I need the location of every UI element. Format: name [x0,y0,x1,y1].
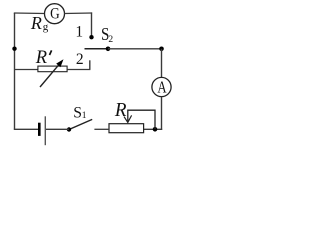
wire down to contact 1 [91,12,93,36]
wire R' row right [67,69,90,71]
resistor R box [109,124,144,133]
battery short plate [38,123,41,136]
galvanometer G (internal resistance Rg) [45,4,65,24]
rheostat R' arrow [40,65,59,87]
svg-text:1: 1 [82,111,87,121]
resistor R' box [38,66,67,72]
node left junction dot [12,47,16,51]
wire S2 to ammeter branch [108,48,162,50]
svg-text:g: g [43,21,49,33]
svg-text:G: G [50,5,60,22]
wire down to ammeter [161,49,163,78]
svg-text:2: 2 [76,51,84,68]
svg-text:2: 2 [108,35,113,45]
node junction dot top right [159,47,164,52]
battery long plate [44,116,46,145]
wire bottom right horizontal [144,128,163,130]
svg-text:R: R [114,100,127,122]
node junction dot bottom right [153,127,158,132]
svg-text:A: A [157,79,167,97]
switch S2 blade [85,48,109,50]
svg-text:1: 1 [75,24,83,41]
node S1 pivot dot [67,127,71,131]
node S2 pivot dot [106,47,111,52]
wire contact 2 stub [89,60,91,69]
node contact 1 dot [89,35,93,39]
wire battery to S1 [46,128,69,130]
wire ammeter down [161,97,163,130]
wire top left horizontal [14,12,45,15]
rheostat R wiper elbow [128,110,155,129]
wire left vertical [14,13,16,129]
wire top right horizontal [64,12,92,15]
svg-text:R: R [30,13,42,33]
ammeter A [152,77,171,96]
wire S1 to R box [94,128,109,130]
svg-text:R: R [35,48,47,68]
wire R' row left [15,69,38,71]
rheostat R wiper arrowhead [124,115,132,122]
wire bottom left [14,128,38,130]
switch S1 blade [69,119,92,129]
svg-text:S: S [73,104,82,121]
